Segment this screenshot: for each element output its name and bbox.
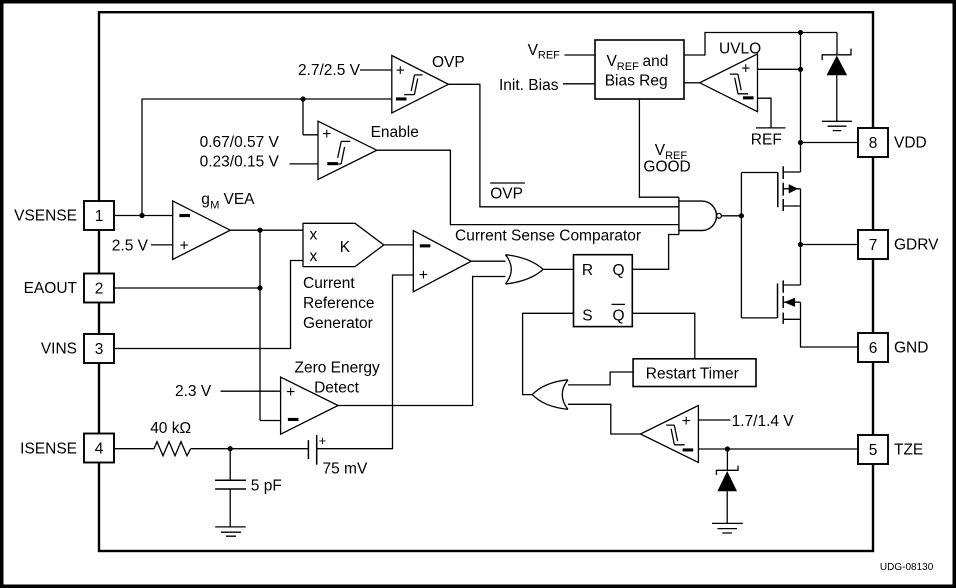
pin 2 EAOUT bbox=[24, 274, 114, 303]
svg-text:GOOD: GOOD bbox=[643, 159, 690, 176]
wire: flip-flop Qbar output to Restart Timer bbox=[632, 313, 695, 359]
svg-text:OVP: OVP bbox=[490, 186, 523, 203]
comparator Current Sense bbox=[413, 231, 471, 292]
ground under VDD zener bbox=[822, 121, 852, 130]
wire net: TZE pin to comparator inverting input and zener bbox=[698, 446, 858, 470]
wire net: VSENSE to VEA inverting input and OVP inverting input and Enable non-inverting input bbox=[114, 96, 392, 218]
svg-text:5: 5 bbox=[869, 442, 878, 459]
comparator TZE threshold bbox=[640, 406, 698, 463]
svg-text:REF: REF bbox=[538, 50, 560, 62]
svg-text:6: 6 bbox=[869, 340, 878, 357]
svg-text:3: 3 bbox=[95, 341, 104, 358]
wire: 0.23/0.15 V to Enable inverting input bbox=[290, 163, 319, 165]
svg-text:Bias Reg: Bias Reg bbox=[605, 73, 668, 90]
svg-text:K: K bbox=[340, 239, 351, 256]
svg-text:VDD: VDD bbox=[894, 135, 927, 152]
svg-text:4: 4 bbox=[95, 441, 104, 458]
wire net: totem pole midpoint to GDRV bbox=[798, 189, 858, 285]
comparator OVP bbox=[392, 56, 449, 113]
svg-text:Q: Q bbox=[613, 262, 625, 279]
svg-text:8: 8 bbox=[869, 135, 878, 152]
OR gate at flip-flop S input bbox=[532, 380, 568, 410]
pin 3 VINS bbox=[41, 334, 114, 363]
comparator Enable bbox=[318, 121, 377, 179]
wire: TZE comparator output to OR gate input bbox=[565, 404, 641, 434]
block VREF and Bias Reg bbox=[595, 40, 684, 99]
wire: battery to Current Sense Comparator non-inverting input bbox=[317, 275, 414, 449]
wire: OVP output to NAND input bbox=[448, 84, 679, 207]
wire: UVLO output to Bias Reg bbox=[684, 82, 700, 84]
pin 6 GND bbox=[858, 333, 928, 362]
SR flip-flop bbox=[574, 255, 633, 327]
svg-text:+: + bbox=[419, 267, 428, 284]
pin 8 VDD bbox=[858, 128, 927, 157]
svg-text:S: S bbox=[582, 307, 592, 324]
svg-text:40 kΩ: 40 kΩ bbox=[150, 420, 191, 437]
K block current reference generator bbox=[303, 223, 384, 266]
pin 7 GDRV bbox=[858, 230, 939, 259]
svg-text:2.7/2.5 V: 2.7/2.5 V bbox=[298, 62, 361, 79]
svg-text:g: g bbox=[201, 191, 210, 208]
svg-text:0.67/0.57 V: 0.67/0.57 V bbox=[200, 134, 280, 151]
NAND gate bbox=[679, 201, 721, 230]
comparator Zero Energy Detect bbox=[281, 377, 339, 434]
wire: OR gate output to flip-flop R input bbox=[543, 268, 573, 270]
label VREF GOOD bbox=[643, 142, 690, 176]
svg-text:Reference: Reference bbox=[303, 295, 375, 312]
zener diode at VDD bbox=[822, 49, 851, 122]
svg-text:1: 1 bbox=[95, 208, 104, 225]
svg-text:UDG-08130: UDG-08130 bbox=[880, 562, 934, 573]
MOSFET Q1 upper bbox=[778, 166, 801, 211]
wire: Init. Bias input to Bias Reg bbox=[563, 83, 595, 85]
wire net: VDD rail bbox=[798, 33, 858, 173]
label OVP-bar bbox=[490, 183, 525, 203]
svg-text:UVLO: UVLO bbox=[719, 40, 761, 57]
svg-text:75 mV: 75 mV bbox=[323, 461, 368, 478]
svg-text:+: + bbox=[319, 433, 327, 448]
wire net: NAND output to gate rail of MOSFETs bbox=[721, 173, 777, 318]
label Zero Energy Detect bbox=[295, 360, 381, 397]
pin 5 TZE bbox=[858, 435, 923, 464]
svg-text:OVP: OVP bbox=[432, 54, 465, 71]
wire: 2.5 V to VEA non-inverting input bbox=[151, 244, 173, 246]
wire: OR gate output to flip-flop S input bbox=[523, 313, 574, 394]
wire: 2.7/2.5 V to OVP non-inverting input bbox=[360, 69, 392, 71]
wire net: ISENSE through resistor to battery, junction to capacitor bbox=[114, 446, 308, 451]
label gM VEA bbox=[201, 191, 255, 212]
svg-text:REF: REF bbox=[751, 131, 782, 148]
svg-text:Zero Energy: Zero Energy bbox=[295, 360, 381, 377]
wire: Current Sense Comparator output to OR gate input bbox=[471, 260, 510, 262]
svg-text:Q: Q bbox=[613, 307, 625, 324]
resistor 40 kOhm bbox=[154, 442, 191, 456]
svg-text:0.23/0.15 V: 0.23/0.15 V bbox=[200, 154, 280, 171]
svg-text:+: + bbox=[180, 237, 189, 254]
wire: 1.7/1.4 V to TZE comparator non-inverting input bbox=[698, 419, 730, 421]
svg-text:+: + bbox=[396, 62, 405, 79]
capacitor 5 pF bbox=[215, 449, 246, 527]
zener diode at TZE bbox=[716, 466, 738, 524]
svg-text:GDRV: GDRV bbox=[894, 237, 939, 254]
svg-text:x: x bbox=[310, 226, 318, 243]
pin 1 VSENSE bbox=[14, 201, 114, 230]
svg-text:Init. Bias: Init. Bias bbox=[499, 77, 559, 94]
svg-text:x: x bbox=[310, 248, 318, 265]
svg-text:VEA: VEA bbox=[224, 191, 256, 208]
svg-text:5 pF: 5 pF bbox=[251, 478, 282, 495]
ground under TZE zener bbox=[712, 523, 743, 533]
wire: flip-flop Q output to NAND input bbox=[632, 231, 679, 270]
wire: UVLO non-inverting input to VDD rail bbox=[758, 67, 804, 72]
svg-text:EAOUT: EAOUT bbox=[24, 280, 78, 297]
comparator UVLO bbox=[700, 54, 758, 112]
wire: VREF GOOD from Bias Reg to NAND input bbox=[639, 99, 679, 201]
svg-text:VINS: VINS bbox=[41, 341, 77, 358]
OR gate at flip-flop R input bbox=[506, 255, 544, 284]
label Current Reference Generator bbox=[303, 275, 375, 332]
wire: K output to Current Sense Comparator inverting input bbox=[384, 244, 414, 246]
svg-text:+: + bbox=[682, 413, 691, 430]
svg-text:Enable: Enable bbox=[371, 124, 419, 141]
svg-text:+: + bbox=[741, 61, 750, 78]
MOSFET Q2 lower bbox=[778, 280, 801, 324]
ground under capacitor bbox=[215, 527, 246, 536]
battery 75 mV bbox=[308, 435, 316, 465]
wire net: VEA output to K block and EAOUT and Zero Energy Detect inverting input bbox=[114, 228, 303, 421]
svg-text:VSENSE: VSENSE bbox=[14, 208, 77, 225]
wire: VREF input to Bias Reg bbox=[565, 54, 596, 56]
svg-text:+: + bbox=[322, 126, 331, 143]
block Restart Timer bbox=[633, 359, 756, 387]
wire: Restart Timer output to OR gate input bbox=[565, 372, 633, 385]
svg-text:and: and bbox=[643, 53, 669, 70]
svg-text:R: R bbox=[582, 262, 593, 279]
svg-text:7: 7 bbox=[869, 237, 878, 254]
svg-text:2.3 V: 2.3 V bbox=[175, 383, 212, 400]
svg-text:Generator: Generator bbox=[303, 315, 373, 332]
svg-text:Current Sense Comparator: Current Sense Comparator bbox=[455, 228, 641, 245]
svg-text:2: 2 bbox=[95, 281, 104, 298]
svg-text:TZE: TZE bbox=[894, 442, 923, 459]
svg-text:+: + bbox=[286, 384, 295, 401]
wire: UVLO inverting input to REF terminal bbox=[756, 98, 786, 128]
svg-text:1.7/1.4 V: 1.7/1.4 V bbox=[732, 413, 795, 430]
svg-text:Detect: Detect bbox=[314, 379, 359, 396]
op-amp VEA bbox=[173, 201, 231, 260]
wire: 2.3 V to Zero Energy Detect non-inverting input bbox=[221, 390, 281, 392]
wire: Zero Energy Detect output to OR gate input bbox=[338, 277, 510, 406]
svg-text:2.5 V: 2.5 V bbox=[112, 237, 149, 254]
wire: lower MOSFET source to GND pin bbox=[801, 302, 859, 347]
svg-text:M: M bbox=[210, 200, 219, 212]
svg-text:Restart Timer: Restart Timer bbox=[646, 365, 739, 382]
pin 4 ISENSE bbox=[20, 434, 114, 463]
wire net: Bias Reg to VDD rail and zener bbox=[684, 30, 837, 55]
svg-text:GND: GND bbox=[894, 340, 928, 357]
svg-text:ISENSE: ISENSE bbox=[20, 440, 77, 457]
svg-text:Current: Current bbox=[303, 275, 355, 292]
wire: VINS to K block lower input bbox=[114, 261, 303, 349]
wire: Enable output to NAND input bbox=[377, 150, 679, 224]
IC boundary bbox=[99, 12, 873, 551]
label VREF input bbox=[528, 42, 561, 62]
svg-text:REF: REF bbox=[617, 61, 639, 73]
